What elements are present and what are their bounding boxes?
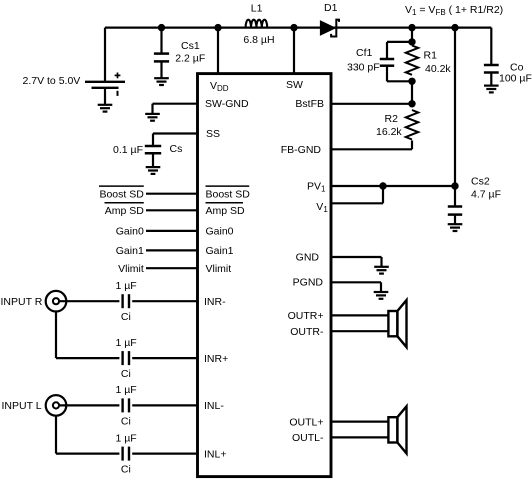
svg-text:1 µF: 1 µF <box>116 432 137 444</box>
svg-text:PGND: PGND <box>293 277 324 289</box>
svg-text:Cf1: Cf1 <box>356 47 373 59</box>
node BstFB junction <box>408 100 415 107</box>
junction rail-V1 <box>451 24 458 31</box>
svg-text:R2: R2 <box>385 113 399 125</box>
junction rail-Cs1 <box>158 24 165 31</box>
speaker left channel <box>388 417 397 442</box>
svg-text:1 µF: 1 µF <box>116 384 137 396</box>
svg-text:D1: D1 <box>324 2 338 14</box>
svg-text:L1: L1 <box>251 2 263 14</box>
svg-text:OUTR+: OUTR+ <box>288 310 324 322</box>
wire V1 rail vertical <box>454 28 456 186</box>
svg-text:Amp SD: Amp SD <box>206 205 246 217</box>
svg-text:1 µF: 1 µF <box>116 337 137 349</box>
speaker right channel <box>388 311 397 336</box>
wire Cf1 bottom vertical <box>386 66 388 82</box>
svg-text:Amp SD: Amp SD <box>105 205 145 217</box>
capacitor Cs <box>145 146 161 153</box>
svg-text:Boost SD: Boost SD <box>99 189 144 201</box>
capacitor Ci (INL+) <box>123 447 129 461</box>
svg-text:V1: V1 <box>316 201 328 214</box>
wire battery to rail <box>104 28 106 82</box>
wire SS pin <box>153 132 198 134</box>
capacitor Co plates <box>484 65 499 73</box>
wire Cs1 to ground <box>160 61 162 77</box>
svg-text:GND: GND <box>296 251 320 263</box>
wire SW-GND pin <box>153 103 198 105</box>
svg-text:0.1 µF: 0.1 µF <box>113 144 143 156</box>
node R1 bottom / Cf1 bottom <box>408 78 415 85</box>
svg-text:16.2k: 16.2k <box>376 126 402 138</box>
svg-text:FB-GND: FB-GND <box>281 144 322 156</box>
wire rail to Co <box>490 28 492 65</box>
svg-text:Cs2: Cs2 <box>471 176 490 188</box>
capacitor Cf1 <box>380 59 394 66</box>
ground Cs1 <box>154 78 169 85</box>
svg-text:1 µF: 1 µF <box>116 280 137 292</box>
svg-text:Cs: Cs <box>170 143 183 155</box>
ground Cs2 <box>448 224 463 231</box>
svg-text:R1: R1 <box>424 50 438 62</box>
svg-text:Vlimit: Vlimit <box>118 263 144 275</box>
wire PGND stem <box>380 282 382 291</box>
wire rail to R1 top node <box>411 28 413 42</box>
junction rail-R1 <box>408 24 415 31</box>
junction rail-SW <box>290 24 297 31</box>
wire FB-GND pin to R2 <box>331 148 412 150</box>
svg-text:6.8 µH: 6.8 µH <box>243 34 274 46</box>
overline pin AmpSD <box>206 202 244 204</box>
wire OUTL+ pin <box>331 421 388 423</box>
wire Gain0 pin <box>146 230 198 232</box>
svg-text:PV1: PV1 <box>307 180 326 193</box>
wire cap to INL+ pin <box>132 453 197 455</box>
wire OUTR- pin <box>331 330 388 332</box>
wire Cf1 bottom horizontal <box>387 80 412 82</box>
svg-text:330 pF: 330 pF <box>347 62 380 74</box>
svg-text:2.7V to 5.0V: 2.7V to 5.0V <box>23 75 81 87</box>
svg-text:Gain1: Gain1 <box>206 245 234 257</box>
capacitor Ci (INL-) <box>123 398 129 412</box>
node R1 top / Cf1 top <box>408 38 415 45</box>
overline external BoostSD <box>99 185 144 187</box>
wire rail to VDD pin <box>217 28 219 74</box>
wire INPUT R to cap <box>59 300 119 302</box>
wire V1 pin <box>331 202 383 204</box>
wire Cf1 top horizontal <box>387 41 412 43</box>
svg-text:Gain0: Gain0 <box>116 226 144 238</box>
wire BstFB pin to divider <box>331 103 412 105</box>
svg-text:VDD: VDD <box>210 80 229 93</box>
svg-text:Cs1: Cs1 <box>181 40 200 52</box>
capacitor Cs1 <box>154 54 169 62</box>
svg-text:100 µF: 100 µF <box>499 73 532 85</box>
wire INPUT R drop <box>55 312 57 359</box>
svg-text:INL+: INL+ <box>204 448 226 460</box>
wire R2 bottom <box>411 141 413 150</box>
svg-text:4.7 µF: 4.7 µF <box>471 189 501 201</box>
wire OUTR+ pin <box>331 314 388 316</box>
svg-text:Gain0: Gain0 <box>206 226 234 238</box>
wire AmpSD pin <box>146 209 198 211</box>
wire cap to INR- pin <box>132 300 197 302</box>
diode D1 <box>321 21 335 34</box>
svg-text:INPUT R: INPUT R <box>1 296 43 308</box>
svg-text:INL-: INL- <box>204 400 224 412</box>
junction PV1/V1 <box>379 182 386 189</box>
wire drop to cap (INL+) <box>56 453 119 455</box>
battery 2.7V to 5.0V <box>85 73 125 105</box>
svg-text:Ci: Ci <box>121 415 131 427</box>
capacitor Ci (INR+) <box>123 351 129 365</box>
wire drop to cap (INR+) <box>56 357 119 359</box>
svg-text:SW: SW <box>286 79 303 91</box>
svg-text:SW-GND: SW-GND <box>205 98 249 110</box>
svg-text:OUTL-: OUTL- <box>292 432 324 444</box>
svg-text:BstFB: BstFB <box>295 98 324 110</box>
wire rail to Cs1 <box>160 28 162 54</box>
wire to Cs2 <box>454 186 456 207</box>
wire PGND pin <box>331 281 381 283</box>
wire SW-GND ground stem <box>151 104 153 114</box>
wire Vlimit pin <box>146 267 198 269</box>
wire cap to INR+ pin <box>132 357 197 359</box>
ground GND pin <box>374 267 389 274</box>
wire INPUT L drop <box>55 416 57 454</box>
wire Gain1 pin <box>146 249 198 251</box>
wire top rail <box>105 27 491 29</box>
ground battery <box>98 105 113 112</box>
connector INPUT L <box>46 395 67 416</box>
svg-text:Ci: Ci <box>121 368 131 380</box>
resistor R2 <box>406 110 418 140</box>
wire R1 to R2 <box>411 81 413 104</box>
svg-text:40.2k: 40.2k <box>425 63 451 75</box>
connector INPUT R <box>46 291 67 312</box>
capacitor Cs2 <box>448 207 462 215</box>
svg-text:Ci: Ci <box>121 311 131 323</box>
wire cap to INL- pin <box>132 404 197 406</box>
wire Cs2 to ground <box>454 215 456 224</box>
wire INPUT L to cap <box>59 404 119 406</box>
svg-text:2.2 µF: 2.2 µF <box>175 53 205 65</box>
overline external AmpSD <box>105 202 144 204</box>
wire PV1 pin <box>331 185 455 187</box>
wire OUTL- pin <box>331 436 388 438</box>
junction rail-VDD <box>214 24 221 31</box>
op-amp U1 TPA2013D1 IC body <box>198 74 332 477</box>
capacitor Ci (INR-) <box>123 294 129 308</box>
ground PGND pin <box>374 292 389 299</box>
inductor L1 <box>246 20 268 28</box>
ground Co <box>484 86 499 93</box>
wire GND stem <box>380 257 382 267</box>
svg-text:OUTL+: OUTL+ <box>289 416 323 428</box>
svg-text:OUTR-: OUTR- <box>290 326 324 338</box>
junction V1 rail / Cs2 <box>451 182 458 189</box>
wire GND pin <box>331 256 382 258</box>
wire V1 up to PV1 <box>382 186 384 203</box>
overline pin BoostSD <box>206 185 250 187</box>
svg-text:Vlimit: Vlimit <box>206 263 232 275</box>
wire Cs to ground <box>152 153 154 167</box>
resistor R1 <box>406 46 418 75</box>
svg-text:Boost SD: Boost SD <box>206 189 251 201</box>
ground SW-GND <box>145 114 160 121</box>
svg-text:Gain1: Gain1 <box>116 245 144 257</box>
svg-text:V1 = VFB ( 1+ R1/R2): V1 = VFB ( 1+ R1/R2) <box>405 4 503 17</box>
wire BoostSD pin <box>146 193 198 195</box>
wire rail to SW pin <box>293 28 295 74</box>
wire SS to Cs <box>152 134 154 147</box>
ground Cs <box>146 167 161 174</box>
wire Cf1 top vertical <box>386 42 388 59</box>
wire Co to ground <box>490 73 492 86</box>
svg-text:SS: SS <box>206 128 220 140</box>
svg-text:Ci: Ci <box>121 464 131 476</box>
svg-text:INR+: INR+ <box>204 353 228 365</box>
svg-text:INPUT L: INPUT L <box>2 400 42 412</box>
svg-text:INR-: INR- <box>204 296 226 308</box>
